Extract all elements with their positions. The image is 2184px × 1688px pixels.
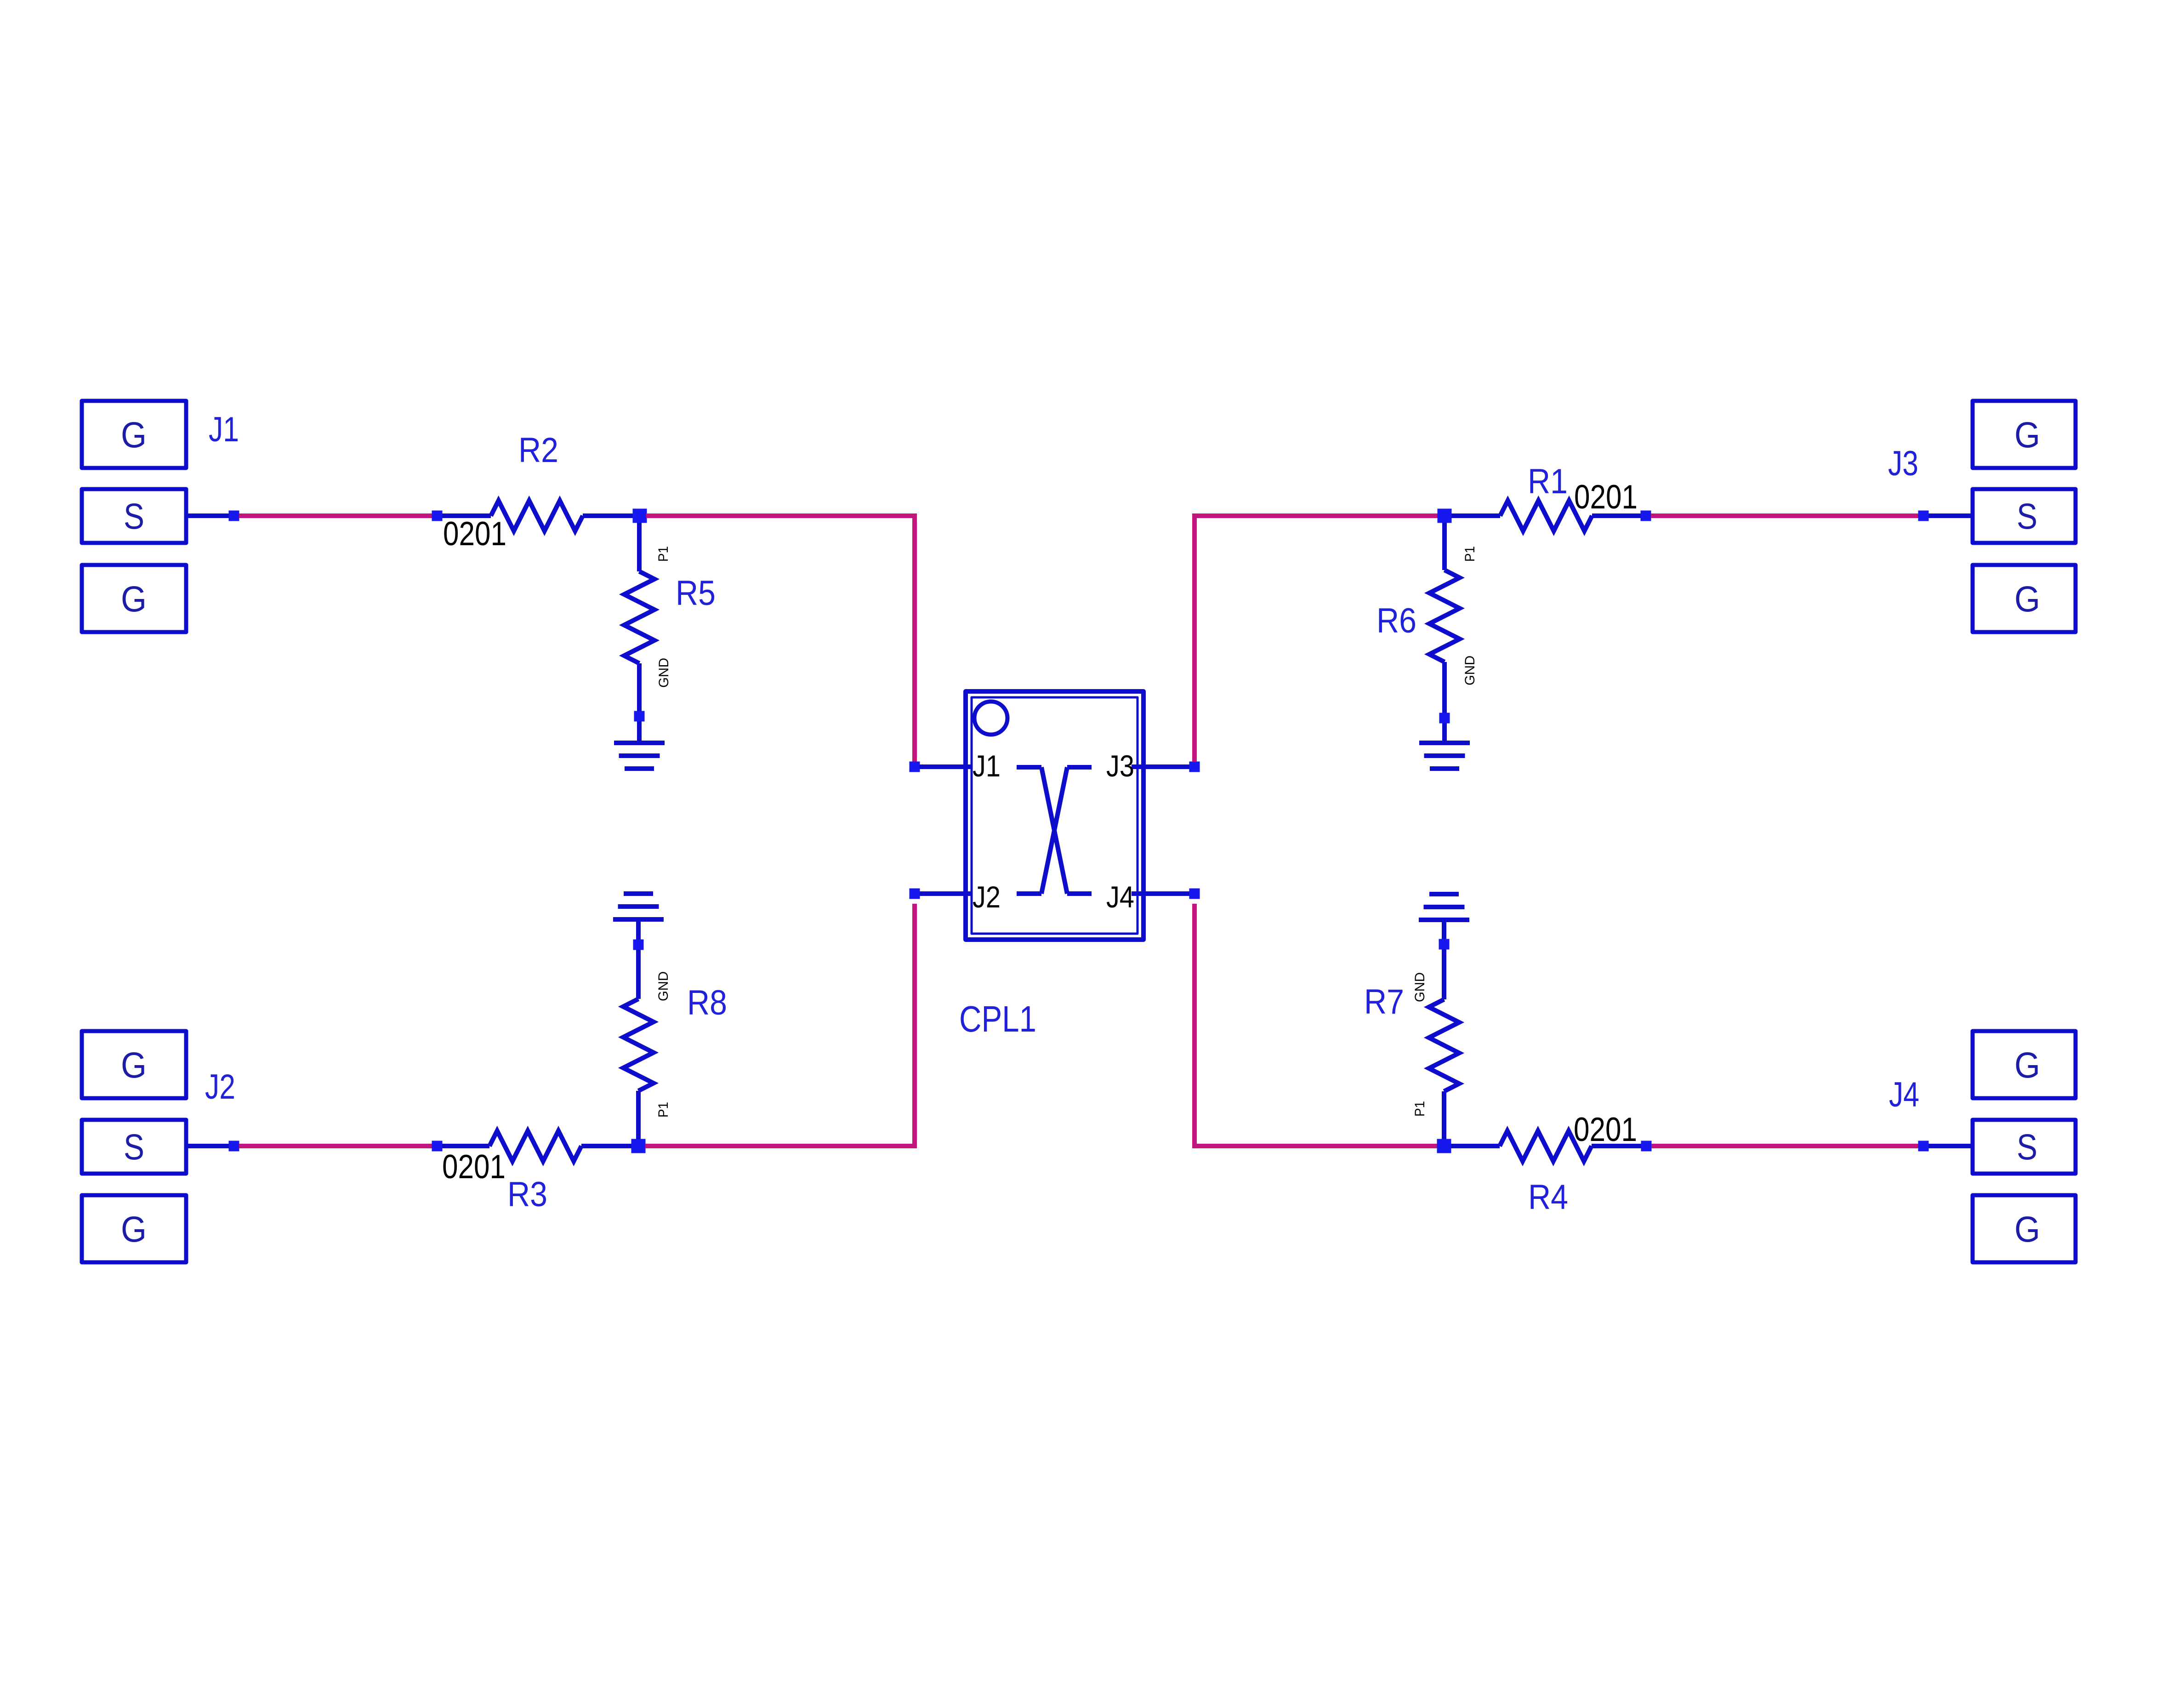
node square at CPL1 pin J1 bbox=[910, 762, 920, 772]
svg-text:R5: R5 bbox=[676, 574, 716, 613]
svg-text:GND: GND bbox=[656, 658, 671, 688]
svg-text:G: G bbox=[2014, 414, 2040, 455]
node square at J4.S pin bbox=[1918, 1141, 1929, 1152]
coupler CPL1 cross line J3-J2 bbox=[1041, 767, 1067, 894]
coupler CPL1 J1 internal stub bbox=[1017, 765, 1041, 770]
resistor R8 body bbox=[623, 999, 654, 1091]
svg-text:P1: P1 bbox=[1412, 1101, 1428, 1117]
svg-text:R1: R1 bbox=[1528, 462, 1568, 501]
svg-text:J4: J4 bbox=[1106, 880, 1134, 914]
svg-text:J1: J1 bbox=[973, 749, 1001, 783]
svg-text:R6: R6 bbox=[1376, 601, 1416, 640]
coupler CPL1 J4 internal stub bbox=[1067, 891, 1092, 896]
connector J3 pad G (bottom) bbox=[1973, 565, 2076, 632]
wire ground to R8 square bbox=[636, 919, 641, 940]
resistor R1 body bbox=[1500, 501, 1592, 531]
svg-text:G: G bbox=[2014, 578, 2040, 619]
resistor R5 body bbox=[624, 571, 654, 663]
svg-text:R2: R2 bbox=[518, 431, 558, 470]
coupler CPL1 J2 internal stub bbox=[1017, 891, 1041, 896]
wire R3 left lead bbox=[442, 1144, 489, 1148]
node square magenta-blue transition (R1 right) bbox=[1641, 511, 1651, 521]
node square R8 to ground bbox=[633, 940, 644, 950]
node square at J3.S pin bbox=[1918, 511, 1929, 521]
node square at J2.S pin bbox=[229, 1141, 239, 1152]
svg-text:S: S bbox=[124, 1126, 144, 1167]
wire R1 left lead bbox=[1451, 513, 1500, 518]
svg-text:GND: GND bbox=[1462, 656, 1478, 685]
node square magenta-blue transition (R2 left) bbox=[432, 511, 443, 521]
svg-text:J2: J2 bbox=[205, 1067, 235, 1106]
wire CPL1 J4 to R7 junction (magenta) bbox=[1194, 904, 1437, 1146]
svg-text:P1: P1 bbox=[1462, 546, 1478, 562]
svg-text:G: G bbox=[121, 578, 147, 619]
connector J4 pad G (top) bbox=[1973, 1031, 2076, 1098]
junction node R2/R5/net (tee) bbox=[633, 509, 647, 523]
svg-text:J2: J2 bbox=[973, 880, 1001, 914]
node square at CPL1 pin J2 bbox=[910, 889, 920, 899]
wire R5 bottom lead (GND) bbox=[637, 663, 642, 711]
node square at J1.S pin bbox=[229, 511, 239, 521]
wire R6 square to ground bbox=[1442, 723, 1447, 743]
wire CPL1 J3 to R6 junction (magenta) bbox=[1194, 516, 1438, 762]
wire R6 bottom lead (GND) bbox=[1442, 662, 1447, 713]
svg-text:0201: 0201 bbox=[442, 1148, 506, 1186]
ground symbol above R8 bbox=[613, 894, 664, 919]
svg-text:S: S bbox=[2017, 1126, 2037, 1167]
wire R6 top lead (P1) bbox=[1442, 523, 1447, 570]
node square magenta-blue transition (R3 left) bbox=[432, 1141, 443, 1152]
wire J2.S pin stub bbox=[186, 1144, 229, 1148]
svg-text:R7: R7 bbox=[1364, 982, 1404, 1021]
svg-text:G: G bbox=[121, 1044, 147, 1085]
svg-text:R8: R8 bbox=[687, 983, 727, 1022]
wire J3.S pin stub bbox=[1928, 513, 1973, 518]
resistor R3 body bbox=[489, 1131, 581, 1161]
wire CPL1 J1 pin stub bbox=[920, 764, 972, 769]
wire R5 top lead (P1) bbox=[637, 523, 642, 571]
connector J1 pad S bbox=[82, 489, 186, 543]
wire R8 bottom lead (P1) bbox=[636, 1091, 641, 1139]
wire J1.S pin stub bbox=[186, 513, 229, 518]
svg-text:0201: 0201 bbox=[443, 515, 506, 553]
wire CPL1 J3 pin stub bbox=[1132, 764, 1189, 769]
resistor R4 body bbox=[1500, 1131, 1592, 1161]
node square R5 to ground bbox=[634, 711, 645, 722]
svg-text:S: S bbox=[124, 496, 144, 536]
node square R6 to ground bbox=[1439, 713, 1450, 724]
connector J1 pad G (bottom) bbox=[82, 565, 186, 632]
svg-text:J4: J4 bbox=[1889, 1075, 1919, 1114]
wire R3 right lead bbox=[581, 1144, 631, 1148]
junction node R7/R4/net (tee) bbox=[1437, 1139, 1451, 1153]
svg-text:GND: GND bbox=[656, 971, 671, 1001]
junction node R3/R8/net (tee) bbox=[631, 1139, 646, 1153]
wire R7 bottom lead (P1) bbox=[1442, 1091, 1446, 1139]
wire R2 junction to CPL1 J1 (magenta) bbox=[646, 516, 915, 762]
svg-text:G: G bbox=[2014, 1209, 2040, 1249]
svg-text:0201: 0201 bbox=[1574, 479, 1638, 516]
wire R2 left lead bbox=[442, 513, 491, 518]
svg-text:GND: GND bbox=[1412, 972, 1428, 1002]
coupler CPL1 cross line J1-J4 bbox=[1041, 767, 1067, 894]
wire net J1 S to R2 (magenta) bbox=[239, 513, 432, 518]
svg-text:CPL1: CPL1 bbox=[959, 998, 1036, 1039]
connector J2 pad S bbox=[82, 1120, 186, 1174]
coupler CPL1 inner box bbox=[972, 697, 1137, 934]
svg-text:0201: 0201 bbox=[1574, 1111, 1637, 1148]
wire R4 right lead bbox=[1592, 1144, 1641, 1148]
junction node R6/R1/net (tee) bbox=[1438, 509, 1452, 523]
wire J4.S pin stub bbox=[1928, 1144, 1973, 1148]
wire R3 junction to CPL1 J2 (magenta) bbox=[645, 904, 915, 1146]
svg-text:G: G bbox=[121, 414, 147, 455]
ground symbol above R7 bbox=[1419, 894, 1469, 920]
coupler CPL1 outer box bbox=[966, 691, 1143, 940]
wire R4 left lead bbox=[1451, 1144, 1500, 1148]
connector J3 pad G (top) bbox=[1973, 401, 2076, 468]
resistor R6 body bbox=[1429, 570, 1460, 662]
wire R1 right lead bbox=[1592, 513, 1641, 518]
connector J4 pad G (bottom) bbox=[1973, 1195, 2076, 1262]
node square magenta-blue transition (R4 right) bbox=[1641, 1141, 1652, 1152]
coupler CPL1 J3 internal stub bbox=[1067, 765, 1092, 770]
svg-text:R3: R3 bbox=[507, 1175, 547, 1214]
wire R5 square to ground bbox=[637, 721, 642, 743]
coupler CPL1 orientation circle bbox=[974, 701, 1007, 735]
svg-text:R4: R4 bbox=[1528, 1178, 1568, 1217]
connector J1 pad G (top) bbox=[82, 401, 186, 468]
svg-text:P1: P1 bbox=[656, 546, 671, 562]
ground symbol below R5 bbox=[614, 743, 665, 769]
wire ground to R7 square bbox=[1442, 920, 1446, 939]
svg-text:J3: J3 bbox=[1888, 444, 1918, 483]
wire net J2 S to R3 (magenta) bbox=[239, 1144, 432, 1148]
wire R1 to J3 S (magenta) bbox=[1651, 513, 1918, 518]
connector J3 pad S bbox=[1973, 489, 2076, 543]
node square at CPL1 pin J3 bbox=[1189, 762, 1200, 772]
wire R4 to J4 S (magenta) bbox=[1651, 1144, 1918, 1148]
wire R8 top lead (GND) bbox=[636, 950, 641, 999]
svg-text:G: G bbox=[121, 1209, 147, 1249]
wire CPL1 J2 pin stub bbox=[920, 891, 972, 896]
resistor R2 body bbox=[491, 501, 583, 531]
connector J2 pad G (top) bbox=[82, 1031, 186, 1098]
svg-text:P1: P1 bbox=[656, 1102, 671, 1118]
node square R7 to ground bbox=[1439, 939, 1450, 950]
wire R7 top lead (GND) bbox=[1442, 949, 1446, 999]
svg-text:J1: J1 bbox=[209, 410, 239, 449]
wire CPL1 J4 pin stub bbox=[1132, 891, 1189, 896]
connector J2 pad G (bottom) bbox=[82, 1195, 186, 1262]
connector J4 pad S bbox=[1973, 1120, 2076, 1174]
svg-text:G: G bbox=[2014, 1044, 2040, 1085]
svg-text:S: S bbox=[2017, 496, 2037, 536]
ground symbol below R6 bbox=[1419, 743, 1470, 769]
node square at CPL1 pin J4 bbox=[1189, 889, 1200, 899]
resistor R7 body bbox=[1429, 999, 1459, 1091]
svg-text:J3: J3 bbox=[1106, 749, 1134, 783]
wire R2 right lead bbox=[583, 513, 633, 518]
